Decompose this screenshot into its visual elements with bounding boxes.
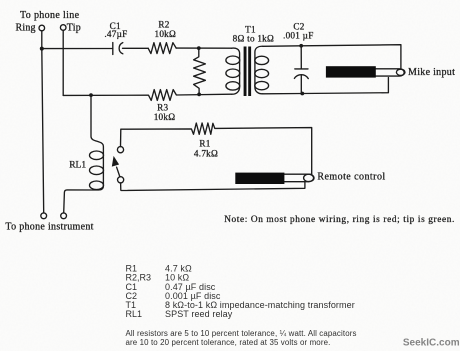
svg-text:4.7kΩ: 4.7kΩ bbox=[194, 149, 218, 159]
svg-text:8Ω to 1kΩ: 8Ω to 1kΩ bbox=[233, 33, 274, 43]
svg-text:SPST reed relay: SPST reed relay bbox=[165, 309, 233, 319]
svg-text:.001 µF: .001 µF bbox=[283, 30, 314, 40]
svg-text:R2: R2 bbox=[158, 19, 169, 29]
svg-text:10kΩ: 10kΩ bbox=[154, 112, 176, 122]
svg-text:R1: R1 bbox=[199, 139, 210, 149]
svg-text:RL1: RL1 bbox=[126, 309, 143, 319]
svg-text:Remote control: Remote control bbox=[317, 172, 385, 183]
svg-text:are 10 to 20 percent tolerance: are 10 to 20 percent tolerance, rated at… bbox=[126, 338, 331, 347]
svg-text:Mike input: Mike input bbox=[408, 67, 455, 78]
svg-text:R3: R3 bbox=[157, 103, 168, 113]
svg-text:Tip: Tip bbox=[67, 22, 81, 33]
svg-text:All resistors are 5 to 10 perc: All resistors are 5 to 10 percent tolera… bbox=[126, 329, 357, 338]
svg-text:10kΩ: 10kΩ bbox=[154, 29, 176, 39]
svg-text:RL1: RL1 bbox=[69, 160, 86, 170]
svg-text:To phone instrument: To phone instrument bbox=[5, 221, 93, 232]
svg-text:To phone line: To phone line bbox=[20, 10, 80, 21]
svg-text:Note: On most phone wiring, ri: Note: On most phone wiring, ring is red;… bbox=[224, 215, 455, 225]
svg-text:Ring: Ring bbox=[16, 22, 36, 33]
svg-text:.47µF: .47µF bbox=[104, 29, 127, 39]
svg-text:SeekIC.com: SeekIC.com bbox=[403, 338, 460, 349]
